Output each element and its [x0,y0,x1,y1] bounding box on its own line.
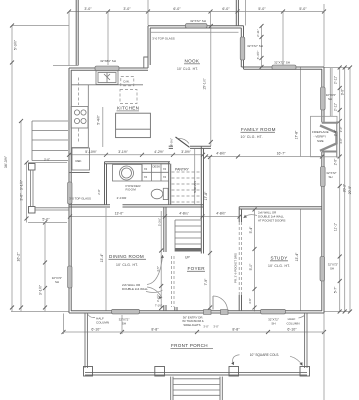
svg-text:4'-8½": 4'-8½" [216,212,226,216]
svg-text:STUDY: STUDY [271,256,288,261]
leader dining note [146,290,163,292]
svg-text:PR. 2'-6 POCKET DRS: PR. 2'-6 POCKET DRS [233,253,237,283]
family room dim line y156.5 [206,156,322,158]
arrowhead square cols [231,362,234,365]
stoop top dim line [28,162,67,164]
svg-text:3'-0½": 3'-0½" [181,150,191,154]
svg-text:HALF: HALF [288,317,296,321]
svg-text:5'-4½": 5'-4½" [96,114,100,124]
svg-text:5'-0": 5'-0" [42,218,50,222]
extension line kitchen window center [107,12,109,66]
top dim ticks [67,10,326,14]
svg-text:20'-2": 20'-2" [343,183,347,192]
upper floor wall extension above kitchen (double) [75,0,77,66]
dining east wall lower stub [163,305,165,311]
svg-text:17'-8": 17'-8" [204,191,208,200]
dining east dim line [160,211,162,308]
svg-text:20'-0": 20'-0" [348,185,352,194]
island dim line [102,107,104,147]
family east dim line [300,68,302,157]
svg-text:5'-10½": 5'-10½" [85,150,97,154]
extension line bay right [245,0,247,26]
counter bottom [71,147,88,149]
svg-text:FRONT PORCH: FRONT PORCH [171,343,208,348]
svg-text:32"X84" SH: 32"X84" SH [100,59,116,63]
svg-text:13'-0": 13'-0" [115,212,124,216]
sink faucet mark [104,74,110,80]
column 1 [84,367,93,377]
bay top wall (double) [148,25,244,27]
refrigerator [72,148,90,170]
pantry door leaf [176,137,190,147]
bay glass band line [151,31,239,33]
svg-text:4'-8¼": 4'-8¼" [179,212,189,216]
right dim line 2 [344,68,346,312]
left connector at y25.5 [12,25,69,27]
top-left wall kitchen (double) [69,67,148,69]
bottom wall (double) [69,312,324,314]
svg-text:4'-0½": 4'-0½" [170,138,174,146]
front door leaf [212,296,214,310]
west wall (double) [68,68,70,313]
study west dim line [254,210,256,312]
dining north wall / powder south (with 2'-0 door gap) [69,204,110,206]
svg-text:5'-0": 5'-0" [258,7,266,11]
svg-text:SHELVES: SHELVES [193,181,197,193]
window 32x72 SH study [320,257,325,282]
svg-text:10' CLG. HT.: 10' CLG. HT. [177,67,198,71]
extension line bay left wall [147,0,149,26]
dining east wall upper [163,207,165,252]
column 4 [300,367,310,377]
svg-text:7'-9": 7'-9" [204,278,208,286]
top dimension line [69,11,324,13]
svg-text:DINING ROOM: DINING ROOM [109,254,144,259]
left dim line 4 [44,223,46,312]
svg-text:NOOK: NOOK [185,59,200,64]
window 32x72 SH family lower [321,167,326,187]
svg-text:SH: SH [122,322,126,326]
svg-text:13'-4": 13'-4" [100,253,104,262]
svg-text:6'-10": 6'-10" [287,328,297,332]
svg-text:5'-3½": 5'-3½" [157,218,161,226]
svg-text:COLUMN: COLUMN [286,322,299,326]
svg-text:5'-0": 5'-0" [299,7,307,11]
sink divider [106,73,108,83]
svg-text:13'-4": 13'-4" [295,252,299,261]
right dim line 1 [339,68,341,312]
bottom extension: half column left [121,315,123,334]
fireplace surround box [311,116,338,157]
upper floor wall extension above bay (double) [235,0,237,26]
svg-text:DESK: DESK [153,165,161,169]
bottom extension: SW corner [63,314,65,335]
svg-text:3'-4½": 3'-4½" [256,51,260,60]
sink inner [122,168,132,178]
sink base [96,71,118,85]
counter front edge [71,84,143,86]
svg-text:16'-2": 16'-2" [17,252,21,262]
front door swing [213,296,228,311]
window 32x84 SH kitchen [95,66,119,71]
svg-text:2'-8": 2'-8" [97,189,101,194]
toilet tank [163,188,168,199]
svg-text:32"X72" SH: 32"X72" SH [190,19,206,23]
hall wall below REF [69,172,90,174]
svg-text:PANTRY: PANTRY [175,168,190,172]
leader to wall upper [147,255,163,285]
svg-text:FAMILY ROOM: FAMILY ROOM [241,127,276,132]
stoop stringer [31,121,33,161]
counter side edge [87,85,89,148]
foyer/dining dim line y216.5 [70,216,240,218]
window 32x72 SH dining bottom [112,309,140,314]
cooktop box [71,107,88,129]
extension line nook window [282,12,284,66]
stoop landing edge (double) [35,207,69,209]
svg-text:2'-11": 2'-11" [334,75,338,84]
svg-text:6'-10": 6'-10" [91,328,101,332]
left bottom connector [11,311,69,313]
fireplace bottom connector [322,151,337,153]
svg-text:SH: SH [328,97,332,101]
stoop railing (double) [30,170,32,207]
svg-text:COLUMN: COLUMN [96,321,109,325]
desk bottom line [142,180,169,182]
svg-text:4'-8½": 4'-8½" [216,152,226,156]
island counter line [116,128,151,130]
svg-text:SH: SH [328,175,332,179]
chase side walls [329,68,331,116]
svg-text:3'-0": 3'-0" [44,158,50,162]
svg-text:5'-7": 5'-7" [334,286,338,293]
stoop newel post bottom [29,207,36,214]
svg-text:FIREPLACE: FIREPLACE [312,130,329,134]
svg-text:SH: SH [330,266,334,270]
svg-text:3'-0 TOP GLASS: 3'-0 TOP GLASS [69,197,91,201]
svg-text:3'-1½": 3'-1½" [39,284,43,295]
powder room west wall [104,162,106,205]
firebox back strip [337,122,340,157]
leader half column left [88,315,95,318]
svg-text:DOUBLE 2x4 WALL: DOUBLE 2x4 WALL [122,287,148,291]
study north wall (dashed pocket section) [239,206,322,208]
svg-text:SH: SH [55,280,59,284]
svg-text:- VERIFY: - VERIFY [314,135,327,139]
left outer dimension line [11,26,13,312]
desk divider 2 [151,164,153,181]
svg-text:AT POCKET DOORS: AT POCKET DOORS [258,219,286,223]
svg-text:8'-8": 8'-8" [151,328,159,332]
svg-text:3'-0 TOP GLASS: 3'-0 TOP GLASS [152,37,175,41]
right dim ticks [338,66,352,314]
svg-text:SIZE: SIZE [317,139,324,143]
svg-text:3'-6": 3'-6" [248,298,252,303]
burner 2 [81,110,86,115]
right footer connector [324,311,351,313]
svg-text:2'-11": 2'-11" [256,29,260,37]
foyer vertical dim line x210 [209,157,211,312]
svg-text:36'-3½": 36'-3½" [4,155,8,168]
svg-text:10" SQUARE COLS.: 10" SQUARE COLS. [250,353,280,357]
pantry north wall (door gap at left) [169,145,173,147]
firebox splay [320,126,337,151]
window 32x72 SH family upper [321,87,326,110]
svg-text:10' CLG. HT.: 10' CLG. HT. [241,135,263,139]
vanity counter [113,165,143,182]
svg-text:2'-0": 2'-0" [334,158,338,165]
hall west window 3'-0 top glass [68,182,72,204]
burner 1 [74,110,79,115]
svg-text:32"X72" SH: 32"X72" SH [247,44,263,48]
bay left notch [144,57,148,68]
svg-text:3'-4": 3'-4" [334,129,338,136]
extension line at NW corner [68,12,70,67]
extension line bay mid [210,12,212,26]
stoop width dim line [28,222,67,224]
study west wall (pocket doors dashed) [238,207,240,222]
toilet bowl [151,189,163,199]
desk divider 1 [141,164,143,181]
svg-text:10' CLG. HT.: 10' CLG. HT. [116,263,138,267]
svg-text:REF.: REF. [76,159,82,163]
svg-text:6'-0": 6'-0" [173,7,181,11]
bay right window dim line [261,26,263,67]
kitchen/powder dim line y153 [69,154,203,156]
desk mid shelf [142,171,169,173]
top-right wall nook (double) [242,66,325,68]
svg-text:SH: SH [271,322,275,326]
sink bowl circle [120,166,134,180]
study east dim line [300,210,302,312]
shelf dashes [172,171,201,173]
left dim line 2 [20,121,22,312]
island upper cabinet dashed [120,90,137,104]
svg-text:4'-0": 4'-0" [339,138,343,144]
svg-text:5'-4": 5'-4" [249,226,253,234]
svg-text:8'-8": 8'-8" [232,328,240,332]
svg-text:SIDELIGHTS: SIDELIGHTS [183,323,200,327]
svg-text:16'-7": 16'-7" [277,152,286,156]
front step treads [173,378,220,380]
burner 4 [81,118,86,123]
svg-text:9'-0": 9'-0" [341,88,345,95]
dishwasher dashed [121,77,134,86]
pantry inner dim line [194,149,196,204]
svg-text:4'-2½": 4'-2½" [154,150,164,154]
column 3 [229,367,239,377]
upper floor line top-left [53,65,78,67]
extension line NE corner [323,4,325,67]
dining west dim line [105,208,107,311]
column 2 [155,367,165,377]
svg-text:3'-1½": 3'-1½" [20,179,24,190]
svg-text:3'-0": 3'-0" [339,127,343,133]
fireplace top connector [322,122,338,124]
stoop newel post top [29,164,36,171]
leader to wall lower [147,287,162,298]
front door sidelight right [221,310,229,315]
svg-text:D.W.: D.W. [124,80,130,84]
svg-text:10' CLG. HT.: 10' CLG. HT. [268,264,290,268]
bottom dim ticks [62,330,327,334]
porch right edge (double) [304,313,306,368]
porch left edge (double) [84,313,86,368]
right header connector [325,67,351,69]
right dim line 3 [349,68,351,312]
pantry door swing [178,138,190,143]
window 32x72 SH nook east [272,65,296,70]
left stoop treads [32,120,68,122]
window 32x72 SH bay top [186,24,208,28]
svg-text:7'-1½": 7'-1½" [155,304,162,308]
desk divider 3 [160,164,162,181]
main stair treads [175,219,201,221]
desk top line [142,163,169,165]
stair landing edge (dark) [175,248,201,252]
stair left stringer [174,220,176,252]
bay left wall (double) [147,26,149,68]
bottom extension: SE dim [323,312,325,400]
svg-text:6'-0": 6'-0" [222,7,230,11]
svg-text:3'-0": 3'-0" [20,193,24,201]
east wall upper segment (double) [323,67,325,122]
svg-text:3'-2½": 3'-2½" [156,294,160,302]
nook width dim line (15'-1 1/4) [210,26,212,146]
leader square cols [233,355,240,365]
svg-text:2'-0 DR: 2'-0 DR [117,196,127,200]
svg-text:3'-0": 3'-0" [213,325,218,329]
svg-text:4'-5": 4'-5" [156,266,160,272]
powder/pantry divider wall [168,162,170,205]
svg-text:11'-1": 11'-1" [334,222,338,231]
kitchen island [116,113,151,137]
front door sidelight left [204,310,212,315]
powder room north wall [105,161,171,163]
pantry/stair east wall [200,146,202,253]
svg-text:ROOM: ROOM [126,188,137,192]
svg-text:UP: UP [185,256,190,260]
svg-text:5'-3½": 5'-3½" [14,39,18,50]
leader half column right [299,315,306,319]
upper cabinet dashes [78,78,80,106]
leader study note [244,215,258,218]
foyer wall stub at bottom wall [174,307,176,311]
svg-text:3'-1½": 3'-1½" [118,150,128,154]
front steps left edge (double) [170,377,172,400]
svg-text:17'-8": 17'-8" [295,130,299,139]
left dim ticks [10,24,47,310]
sink bowl [98,73,116,83]
svg-text:15'-1¼": 15'-1¼" [203,77,207,89]
front steps right edge (double) [219,377,221,400]
porch front edge (double) [85,372,307,374]
svg-text:32"X72" SH: 32"X72" SH [274,61,290,65]
left dim line 3 (stoop) [26,163,28,223]
svg-text:3'-0": 3'-0" [123,7,131,11]
svg-text:KITCHEN: KITCHEN [117,106,139,111]
pocket door dashed (dining/foyer) [171,256,173,307]
svg-text:5'-0": 5'-0" [249,263,253,271]
bay right wall (double) [243,26,245,69]
window 32x72 SH bay right [240,37,245,60]
bottom dimension line [64,331,325,333]
dining west window 32x72 [68,266,72,288]
east wall lower segment (double) [323,152,325,313]
burner 3 [74,118,79,123]
svg-text:FOYER: FOYER [188,266,206,271]
svg-text:3'-0": 3'-0" [203,325,208,329]
window 32x72 SH study bottom [261,309,286,314]
svg-text:2'-11": 2'-11" [334,102,338,111]
svg-text:3'-0": 3'-0" [84,7,92,11]
